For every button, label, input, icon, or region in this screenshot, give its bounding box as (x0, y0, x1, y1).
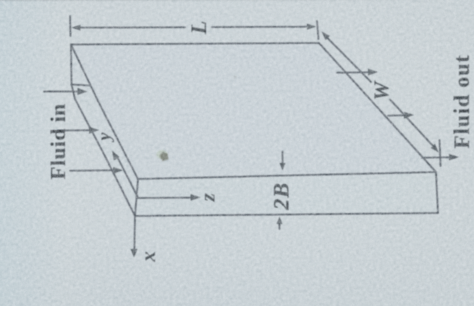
2B down arrowhead (280, 163, 286, 171)
fluid out arrow 1 shaft (337, 71, 370, 74)
slab edge A2-D2 diagonal (72, 85, 136, 217)
z axis shaft (137, 197, 192, 199)
dust speck on page (157, 150, 168, 159)
fluid in arrowhead 1 (78, 88, 88, 95)
dimension W line upper segment (327, 37, 372, 82)
slab left vertical edge A-A2 (70, 45, 73, 85)
2B down arrow shaft (282, 152, 284, 165)
2B up arrowhead (277, 217, 283, 225)
short ledge segment at A2 (72, 85, 91, 86)
fluid out arrow 2 shaft (388, 114, 406, 116)
slab top back edge A-B (71, 43, 319, 45)
fluid out arrowhead 1 (368, 69, 378, 76)
W dim lower arrowhead (431, 144, 439, 153)
slab edge A-D diagonal (71, 45, 138, 180)
fluid in arrow 3 shaft (70, 169, 115, 172)
L dim left arrowhead (72, 25, 81, 31)
fluid out arrowhead 3 (449, 154, 459, 161)
slab right vertical edge C-C2 (436, 172, 438, 213)
2B up arrow shaft (279, 223, 281, 229)
x axis arrowhead (131, 249, 138, 258)
dimension L line left segment (75, 26, 185, 28)
fluid in arrow 2 shaft (58, 129, 91, 131)
fluid out arrowhead 2 (404, 112, 414, 119)
faint speck (234, 76, 237, 79)
top edge shadow line of photo (0, 0, 440, 1)
slab end face tint (71, 45, 135, 217)
fluid in arrowhead 3 (113, 167, 123, 174)
L dim right arrowhead (307, 24, 316, 30)
x axis shaft (133, 217, 136, 251)
slab top face tint (71, 43, 436, 180)
tick at W lower end (440, 140, 441, 166)
dimension W line lower segment (390, 100, 434, 147)
z axis arrowhead (191, 194, 201, 201)
y axis arrowhead (112, 151, 119, 161)
fluid out arrow 3 shaft (422, 156, 451, 159)
tick at L left end (69, 16, 72, 36)
slab front bottom edge D2-C2 (135, 213, 438, 216)
W dim upper arrowhead (322, 32, 330, 41)
tick at L right end (317, 21, 319, 39)
fluid in arrow 1 shaft (44, 91, 79, 93)
slab edge B-C diagonal (319, 43, 436, 172)
slab front top edge D-C (138, 172, 436, 179)
dimension L line right segment (212, 26, 308, 28)
y axis shaft (117, 156, 138, 197)
slab front left vertical edge D-D2 (135, 179, 138, 216)
slab front face tint (135, 172, 438, 216)
fluid in arrowhead 2 (89, 127, 99, 134)
